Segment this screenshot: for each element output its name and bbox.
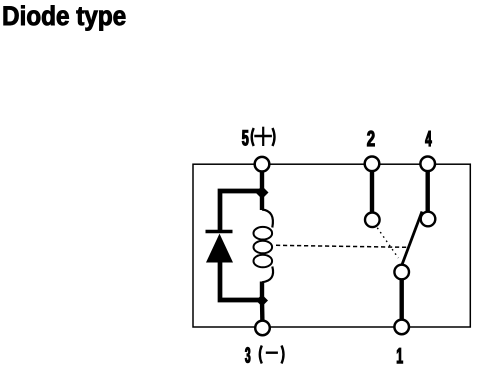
label pin3 minus sign [266,352,278,354]
wire: pin2 stub [370,164,374,214]
armature contact arm [402,212,423,267]
diode D1 triangle [206,234,233,263]
terminal pin 1 [394,320,409,335]
wire: diode branch top [220,191,264,233]
label pin 3 [245,347,250,363]
label pin3 close paren [282,346,284,364]
contact point under pin4 [421,212,436,227]
wire: diode branch bottom [220,261,264,300]
label pin 1 [397,348,403,363]
relay body outline [193,164,470,327]
wire: pin3 stub [260,300,265,328]
node: bottom junction [256,295,268,307]
terminal pin 3 [255,321,270,336]
terminal pin 2 [365,157,380,172]
node: top junction [256,186,269,199]
wire: pin4 stub [426,164,430,212]
coil L1 bottom stub [260,282,264,302]
wire: pin5 stub to coil junction [260,164,264,192]
diode D1 cathode bar [206,230,233,234]
label pin 4 [425,131,431,146]
title "Diode type" [4,5,126,30]
label pin5 close paren [273,128,275,146]
label pin 5 [242,130,248,145]
coil L1 bottom hook [262,267,273,283]
contact point under pin2 [365,213,380,228]
label pin5 open paren [252,128,254,146]
terminal pin 4 [420,157,435,172]
coil L1 loop 3 [253,255,272,268]
dashed actuator link from coil [276,245,408,247]
coil L1 top hook [262,210,273,228]
coil L1 top stub [260,192,264,210]
label pin5 plus sign [262,127,264,146]
coil L1 loop 2 [253,241,272,254]
wire: pin1 stub [400,272,404,327]
dotted armature alternate position [377,228,398,258]
label pin 2 [367,131,374,146]
common contact pivot [394,265,409,280]
terminal pin 5 [255,157,270,172]
label pin3 open paren [260,346,262,364]
coil L1 loop 1 [253,227,272,240]
